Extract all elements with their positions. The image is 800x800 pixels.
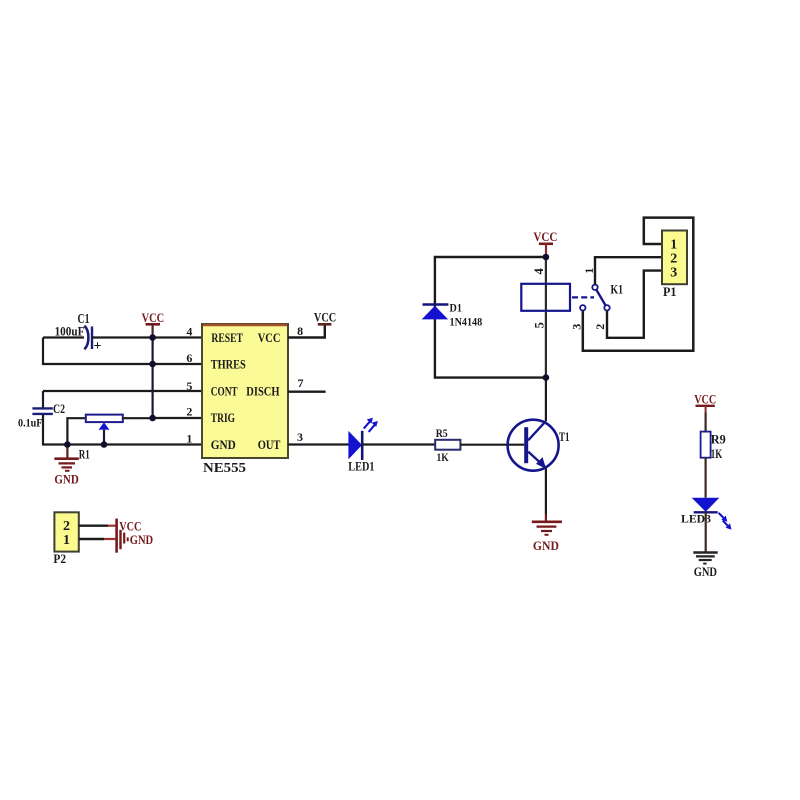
svg-text:LED1: LED1 [348,459,374,473]
ground below R1 [54,445,78,487]
svg-text:1K: 1K [711,447,723,461]
svg-text:2: 2 [593,324,607,330]
wire vcc vertical [152,338,154,419]
svg-text:TRIG: TRIG [211,410,235,425]
svg-text:GND: GND [130,532,153,547]
wire P2 pin1 [79,538,104,540]
wire pin8 to VCC [288,325,325,338]
power VCC relay [533,229,557,257]
switch K1 [570,268,624,330]
IC U1 NE555 timer body [202,324,288,476]
wire D1 loop [435,257,546,378]
svg-text:D1: D1 [450,301,462,315]
wire CONT row [43,390,202,392]
svg-text:VCC: VCC [258,330,281,345]
svg-text:K1: K1 [611,283,624,297]
wire contact3 loop to P1 pin1 [583,218,694,351]
wire [704,458,706,498]
svg-text:VCC: VCC [142,310,165,325]
svg-text:5: 5 [186,379,192,393]
svg-text:2: 2 [670,251,677,266]
power VCC flag P2 [117,518,142,552]
svg-text:5: 5 [533,322,547,328]
power VCC right [694,392,716,412]
svg-text:VCC: VCC [533,229,557,244]
svg-text:R9: R9 [711,433,726,447]
relay K1 coil [521,268,570,329]
wire pin3 OUT [288,443,349,445]
svg-text:GND: GND [533,538,559,553]
node junction dots [543,254,550,381]
svg-text:4: 4 [532,268,546,275]
wire contact2 to P1 pin3 [607,271,662,338]
svg-text:1: 1 [186,431,192,445]
svg-text:P2: P2 [53,552,66,566]
svg-text:VCC: VCC [314,309,336,324]
svg-text:2: 2 [186,404,192,418]
LED LED3 [681,498,732,530]
node junction dots [64,334,156,448]
svg-text:P1: P1 [663,285,677,299]
wire [705,512,707,551]
wire emitter to ground [545,469,547,515]
svg-text:OUT: OUT [258,437,281,452]
wire relay coil vertical [545,257,547,378]
ground flag P2 [121,530,154,549]
wire [704,413,706,432]
transistor T1 [508,420,570,471]
potentiometer R1 [67,415,152,462]
svg-text:T1: T1 [559,430,570,444]
diode D1 1N4148 [422,301,483,329]
capacitor C1 100uF [55,311,102,354]
wire down to C2 [42,391,44,408]
svg-text:0.1uF: 0.1uF [18,416,43,430]
svg-text:6: 6 [186,351,192,365]
wire [460,444,524,446]
wire RESET row left [43,336,84,338]
svg-text:1: 1 [63,533,70,548]
wire [92,336,202,338]
capacitor C2 0.1uF [18,401,65,430]
svg-text:GND: GND [54,471,78,486]
svg-text:3: 3 [570,324,584,330]
ground below T1 [532,522,562,553]
resistor R5 1K [435,426,460,464]
wire contact1 to P1 pin2 [595,257,662,284]
svg-text:THRES: THRES [211,357,246,372]
svg-text:7: 7 [298,376,304,390]
svg-text:R1: R1 [79,447,90,461]
svg-text:VCC: VCC [694,392,716,406]
svg-text:VCC: VCC [119,518,141,533]
svg-text:NE555: NE555 [203,461,246,476]
svg-text:C2: C2 [53,401,65,416]
connector P1 [662,231,687,300]
wire TRIG row [153,417,202,419]
connector P2 [53,512,78,566]
resistor R9 1K [701,432,726,461]
svg-text:100uF: 100uF [55,325,85,339]
svg-text:DISCH: DISCH [246,383,279,398]
LED LED1 [348,418,378,474]
power VCC left [142,310,165,338]
svg-text:4: 4 [186,325,192,339]
wire P2 pin2 [79,525,108,527]
svg-text:RESET: RESET [211,330,243,345]
power VCC pin8 [314,309,336,324]
svg-text:CONT: CONT [211,383,238,398]
svg-text:R5: R5 [436,426,448,440]
svg-text:GND: GND [211,437,236,452]
wire collector [545,378,547,422]
ground below LED3 [693,553,717,579]
svg-text:1K: 1K [437,450,450,464]
wire pin7 [288,391,326,393]
wire [361,443,435,445]
svg-text:GND: GND [694,564,717,579]
svg-text:1N4148: 1N4148 [450,315,483,329]
pin numbers [186,324,303,445]
wire GND row [43,414,202,445]
wire THRES row [43,338,202,365]
svg-text:8: 8 [297,324,303,338]
svg-text:3: 3 [297,430,303,444]
svg-text:3: 3 [670,265,677,280]
svg-text:+: + [94,339,102,354]
